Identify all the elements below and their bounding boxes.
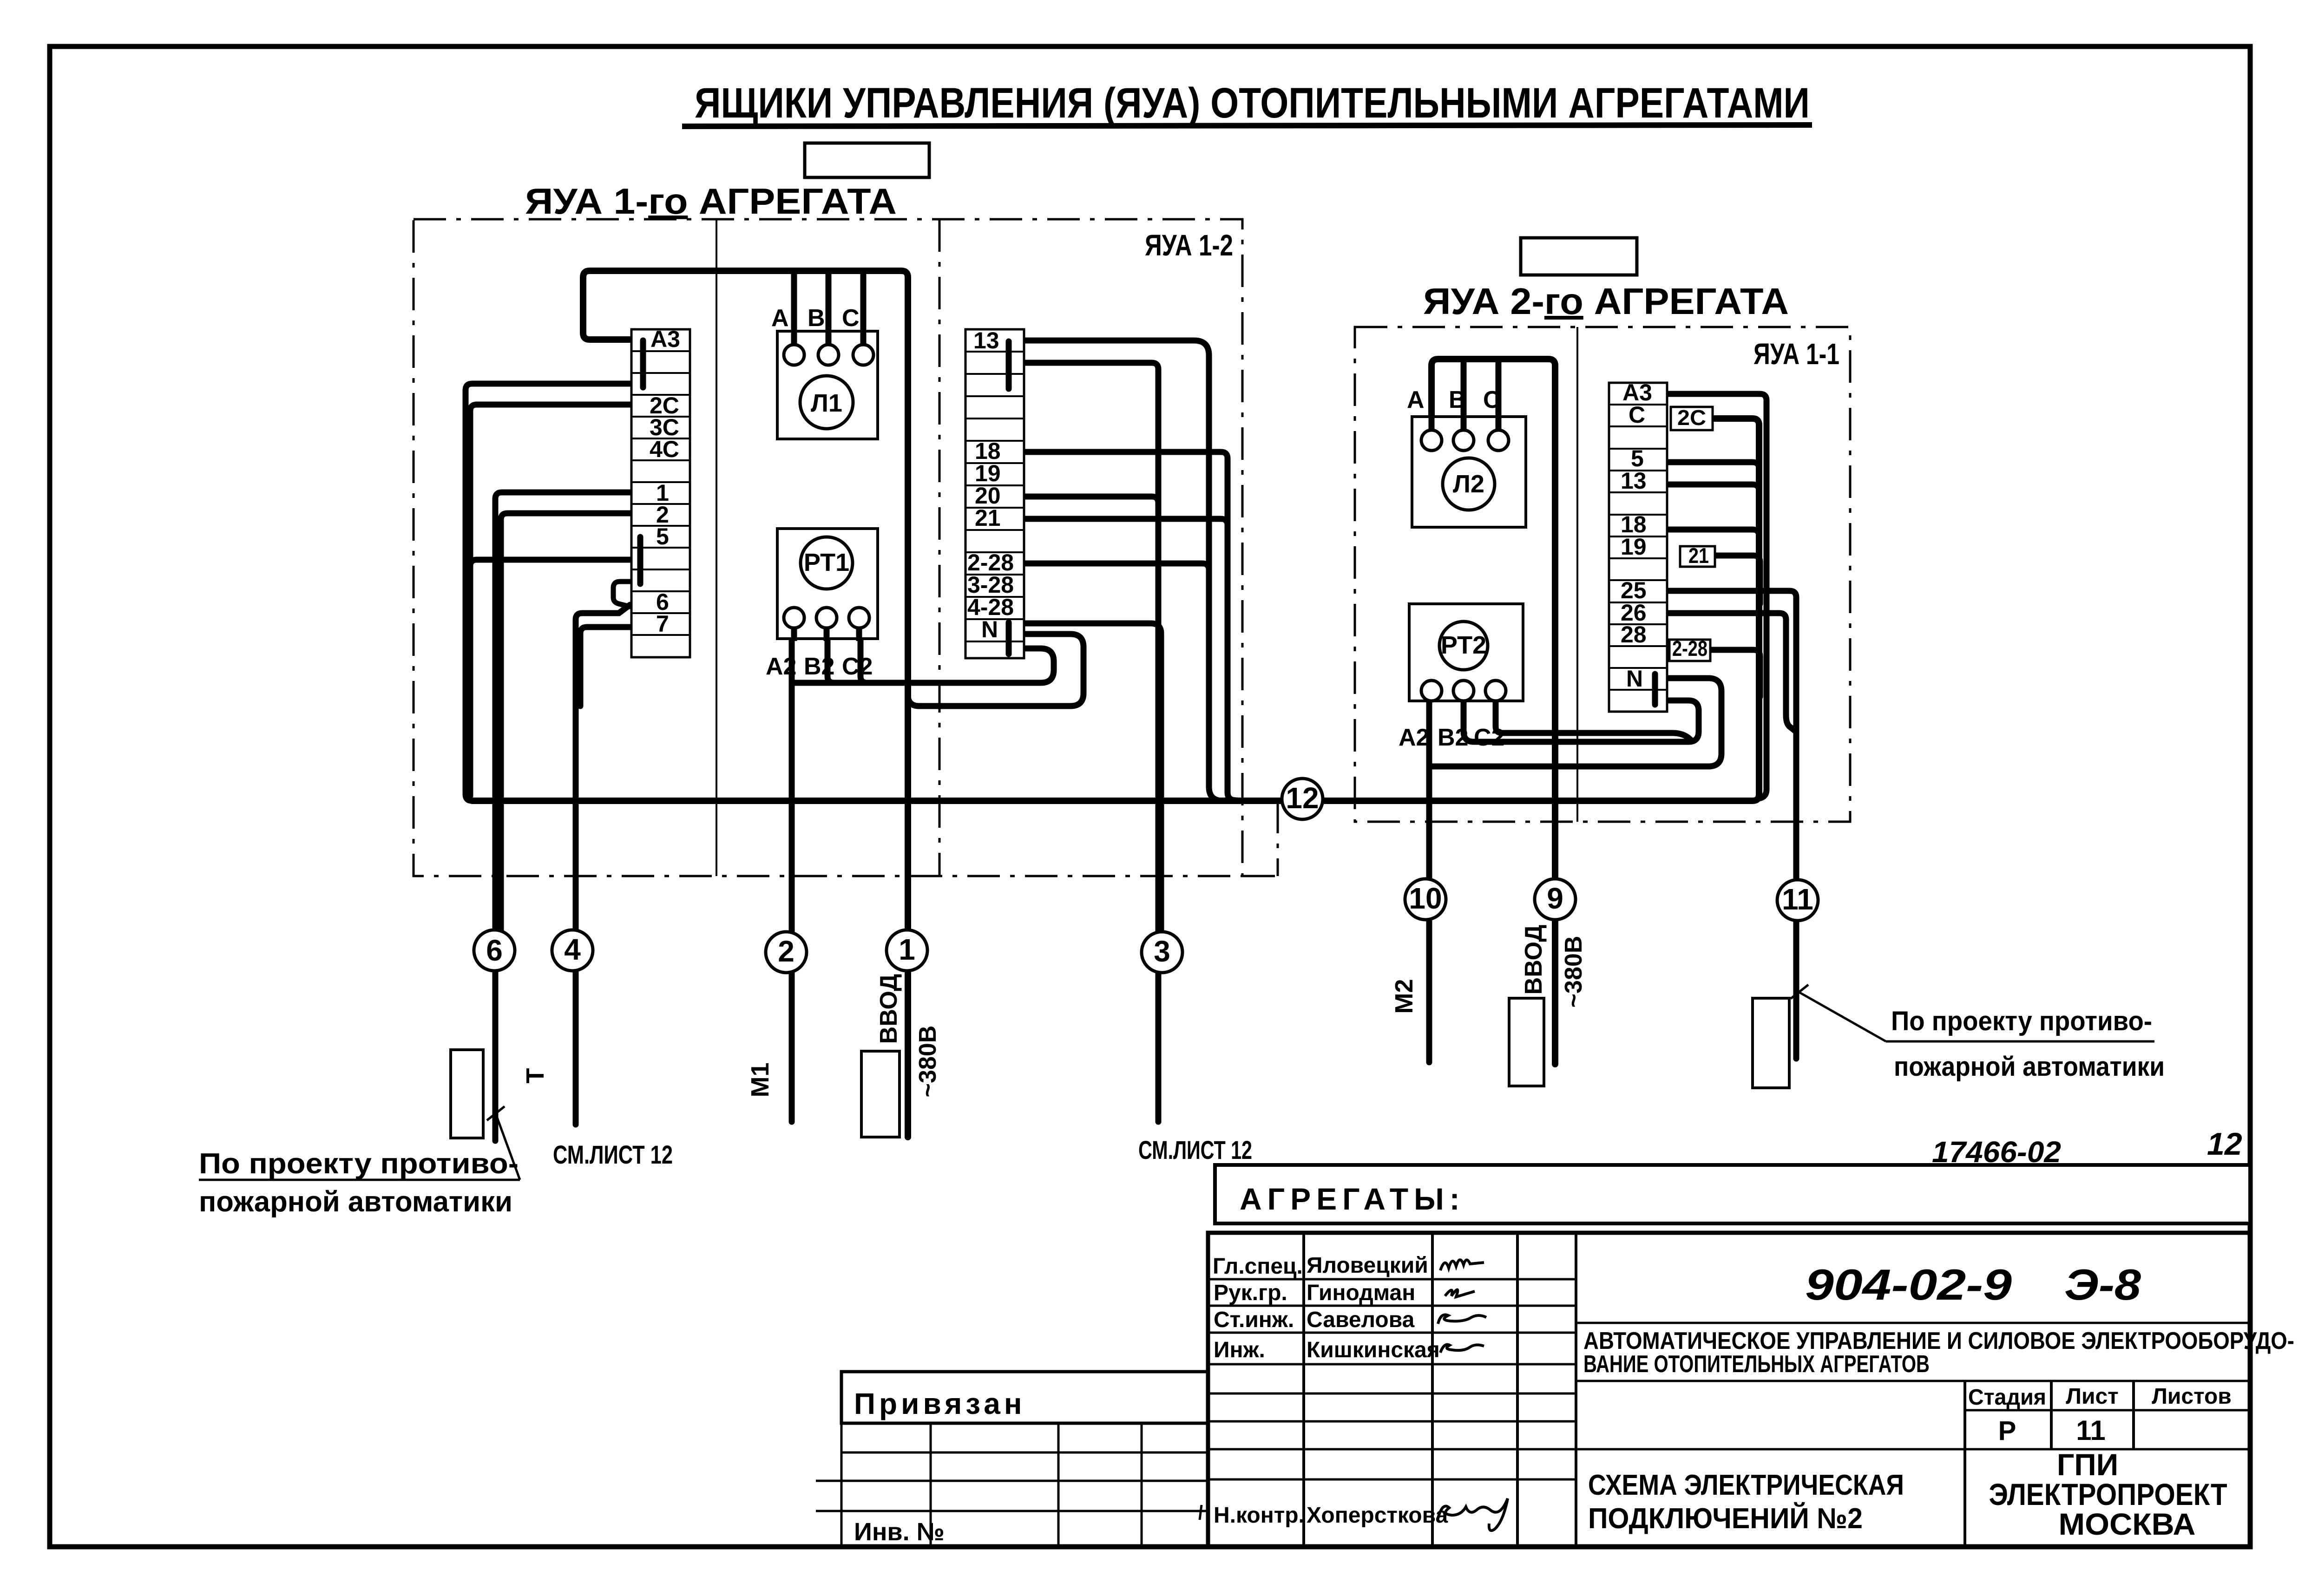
svg-text:4С: 4С (650, 436, 679, 462)
svg-text:21: 21 (1688, 543, 1709, 568)
svg-text:А3: А3 (650, 326, 680, 352)
svg-text:~380В: ~380В (1560, 936, 1587, 1008)
svg-text:РТ1: РТ1 (804, 549, 849, 576)
svg-text:С2: С2 (1474, 724, 1504, 751)
svg-text:Лист: Лист (2066, 1384, 2118, 1409)
svg-text:6: 6 (486, 934, 503, 967)
svg-text:РТ2: РТ2 (1441, 631, 1486, 659)
svg-text:2С: 2С (1677, 406, 1706, 430)
svg-text:2: 2 (778, 935, 795, 968)
svg-text:СМ.ЛИСТ 12: СМ.ЛИСТ 12 (553, 1140, 673, 1169)
svg-text:Инж.: Инж. (1214, 1338, 1265, 1362)
svg-text:МОСКВА: МОСКВА (2059, 1507, 2196, 1541)
svg-text:9: 9 (1547, 882, 1563, 915)
svg-text:Н.контр.: Н.контр. (1214, 1503, 1305, 1528)
svg-text:5: 5 (656, 523, 669, 549)
svg-text:А: А (771, 305, 789, 332)
svg-text:13: 13 (1621, 468, 1647, 494)
svg-text:АГРЕГАТЫ:: АГРЕГАТЫ: (1240, 1182, 1465, 1216)
svg-text:4: 4 (564, 933, 581, 966)
svg-text:Т: Т (521, 1068, 549, 1084)
svg-text:~380В: ~380В (914, 1026, 941, 1098)
svg-text:21: 21 (975, 505, 1001, 531)
svg-text:Рук.гр.: Рук.гр. (1214, 1281, 1287, 1305)
svg-text:Яловецкий: Яловецкий (1307, 1253, 1428, 1278)
svg-text:11: 11 (1782, 883, 1813, 916)
svg-text:ЯУА 1-2: ЯУА 1-2 (1145, 229, 1233, 262)
svg-text:7: 7 (656, 611, 669, 637)
svg-text:С2: С2 (842, 653, 873, 680)
svg-text:А: А (1407, 386, 1425, 413)
svg-text:904-02-9: 904-02-9 (1805, 1260, 2012, 1309)
svg-text:Савелова: Савелова (1307, 1308, 1415, 1332)
svg-text:Инв. №: Инв. № (854, 1518, 945, 1546)
svg-text:ЯУА 2-го АГРЕГАТА: ЯУА 2-го АГРЕГАТА (1423, 281, 1789, 322)
svg-text:С: С (1483, 386, 1501, 413)
svg-text:ЯУА 1-1: ЯУА 1-1 (1753, 337, 1839, 371)
svg-text:N: N (1626, 666, 1643, 692)
svg-text:Гл.спец.: Гл.спец. (1213, 1254, 1303, 1279)
svg-text:Э-8: Э-8 (2064, 1260, 2141, 1309)
svg-text:12: 12 (2207, 1126, 2242, 1162)
svg-text:ЭЛЕКТРОПРОЕКТ: ЭЛЕКТРОПРОЕКТ (1989, 1477, 2227, 1511)
svg-text:13: 13 (973, 327, 999, 353)
svg-text:СХЕМА ЭЛЕКТРИЧЕСКАЯ: СХЕМА ЭЛЕКТРИЧЕСКАЯ (1588, 1469, 1904, 1501)
svg-text:3: 3 (1154, 935, 1170, 968)
svg-text:Стадия: Стадия (1968, 1385, 2046, 1410)
svg-text:12: 12 (1286, 781, 1319, 815)
svg-text:Р: Р (1998, 1416, 2016, 1446)
svg-text:ПОДКЛЮЧЕНИЙ №2: ПОДКЛЮЧЕНИЙ №2 (1588, 1502, 1863, 1535)
svg-text:2-28: 2-28 (1672, 636, 1707, 661)
svg-text:Гинодман: Гинодман (1307, 1281, 1415, 1305)
svg-text:пожарной автоматики: пожарной автоматики (199, 1186, 512, 1218)
svg-text:28: 28 (1621, 621, 1647, 648)
svg-text:Кишкинская: Кишкинская (1307, 1338, 1440, 1362)
svg-text:В: В (808, 305, 825, 332)
svg-text:А2: А2 (1399, 724, 1429, 751)
svg-text:Хоперсткова: Хоперсткова (1307, 1503, 1448, 1528)
svg-text:А2: А2 (766, 653, 796, 680)
svg-text:ГПИ: ГПИ (2057, 1447, 2118, 1482)
svg-text:11: 11 (2076, 1415, 2105, 1446)
svg-text:1: 1 (899, 933, 915, 966)
svg-text:М1: М1 (746, 1062, 774, 1097)
svg-text:В2: В2 (804, 653, 834, 680)
svg-text:С: С (842, 305, 860, 332)
svg-text:ЯЩИКИ УПРАВЛЕНИЯ (ЯУА) ОТОПИТЕ: ЯЩИКИ УПРАВЛЕНИЯ (ЯУА) ОТОПИТЕЛЬНЫМИ АГР… (695, 79, 1810, 127)
svg-text:ЯУА 1-го АГРЕГАТА: ЯУА 1-го АГРЕГАТА (525, 181, 897, 222)
svg-text:СМ.ЛИСТ 12: СМ.ЛИСТ 12 (1138, 1135, 1252, 1164)
svg-text:19: 19 (1621, 534, 1647, 560)
svg-text:Л2: Л2 (1453, 470, 1484, 498)
svg-text:По проекту противо-: По проекту противо- (199, 1148, 519, 1180)
svg-text:В: В (1449, 386, 1466, 413)
svg-text:N: N (981, 616, 998, 642)
svg-text:ВВОД: ВВОД (875, 974, 902, 1044)
svg-text:В2: В2 (1438, 724, 1468, 751)
svg-text:ВВОД: ВВОД (1520, 925, 1547, 995)
svg-text:Привязан: Привязан (854, 1387, 1026, 1420)
svg-text:Ст.инж.: Ст.инж. (1214, 1308, 1294, 1332)
svg-text:Л1: Л1 (811, 389, 842, 417)
svg-text:М2: М2 (1390, 979, 1418, 1014)
svg-text:По проекту противо-: По проекту противо- (1891, 1006, 2152, 1036)
svg-text:пожарной автоматики: пожарной автоматики (1894, 1052, 2165, 1082)
svg-text:ВАНИЕ ОТОПИТЕЛЬНЫХ АГРЕГАТОВ: ВАНИЕ ОТОПИТЕЛЬНЫХ АГРЕГАТОВ (1583, 1351, 1930, 1378)
svg-text:10: 10 (1409, 882, 1442, 915)
svg-text:Листов: Листов (2152, 1384, 2232, 1409)
svg-text:С: С (1629, 402, 1645, 428)
